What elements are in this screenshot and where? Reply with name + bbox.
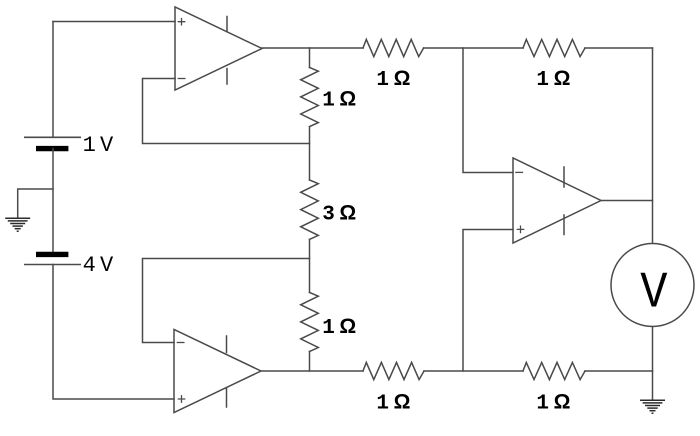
- wire: node at top of middle resistor chain: [309, 48, 311, 68]
- wire: U2 output to R6: [261, 370, 363, 372]
- wire: left rail lower segment to U2 + input: [53, 265, 174, 400]
- resistor R3 1 ohm (vertical bottom): [301, 293, 319, 352]
- ground (right): [640, 400, 665, 413]
- svg-text:1 V: 1 V: [83, 133, 114, 158]
- svg-text:1 Ω: 1 Ω: [536, 390, 569, 415]
- resistor R4 1 ohm (top row left): [363, 39, 424, 56]
- wire: left rail between V1 and V2: [52, 149, 54, 252]
- resistor R7 1 ohm (bottom row right): [523, 362, 585, 379]
- resistor R2 3 ohm (vertical middle): [301, 180, 319, 239]
- wire: U1 output to R4: [262, 47, 363, 49]
- wire: voltmeter bottom to bottom rail junction: [652, 327, 654, 372]
- wire: top-left horizontal from left rail to U1 + input: [53, 21, 175, 23]
- pin - of U3: [516, 171, 523, 173]
- wire: U1 feedback from - input down to node A: [143, 79, 310, 144]
- pin + of U3: [517, 226, 523, 232]
- wire: between R6 and R7 through junction D: [424, 370, 523, 372]
- op-amp U3 (right): [513, 158, 601, 243]
- voltage source V1 1 V battery: [24, 137, 81, 148]
- svg-text:1 Ω: 1 Ω: [322, 87, 355, 112]
- pin - of U2: [177, 342, 184, 344]
- power pin tick (top) of U1: [226, 17, 228, 32]
- resistor R6 1 ohm (bottom row left): [363, 362, 424, 379]
- wire: bottom of middle chain to bottom row: [309, 352, 311, 372]
- wire: R5 to right rail corner: [585, 47, 653, 49]
- svg-text:1 Ω: 1 Ω: [322, 315, 355, 340]
- wire: junction C down to U3 - input: [463, 48, 513, 173]
- power pin tick (top) of U3: [563, 167, 565, 187]
- ground (left): [5, 218, 30, 231]
- resistor R5 1 ohm (top row right): [523, 39, 585, 56]
- wire: left rail upper segment down to V1 top plate: [52, 22, 54, 138]
- pin + of U2: [178, 396, 184, 402]
- wire: node B junction segment between R2 and R3: [309, 239, 311, 292]
- wire: R7 to bottom right junction: [585, 370, 653, 372]
- wire: U3 output to right rail: [601, 200, 653, 202]
- wire: between R4 and R5 through junction C: [424, 47, 523, 49]
- wire: junction D up to U3 + input: [463, 230, 513, 372]
- power pin tick (bottom) of U1: [226, 69, 228, 85]
- pin - of U1: [178, 78, 185, 80]
- svg-text:1 Ω: 1 Ω: [376, 390, 409, 415]
- op-amp U2 (bottom): [174, 330, 261, 413]
- pin + of U1: [178, 19, 184, 25]
- voltage source V2 4 V battery: [24, 254, 81, 264]
- power pin tick (bottom) of U3: [563, 215, 565, 235]
- resistor R1 1 ohm (vertical top): [301, 68, 319, 127]
- voltmeter M1: [611, 244, 694, 327]
- wire: U2 feedback from node B up-left to - input: [143, 259, 310, 343]
- svg-text:3 Ω: 3 Ω: [322, 201, 355, 226]
- wire: ground branch from left rail: [18, 189, 53, 218]
- wire: node A junction segment between R1 and R2: [309, 127, 311, 180]
- svg-text:4 V: 4 V: [83, 253, 114, 278]
- power pin tick (bottom) of U2: [226, 388, 228, 407]
- op-amp U1 (top): [175, 7, 262, 90]
- svg-text:1 Ω: 1 Ω: [536, 67, 569, 92]
- power pin tick (top) of U2: [226, 336, 228, 353]
- wire: right rail down to voltmeter: [652, 48, 654, 244]
- svg-text:V: V: [640, 265, 667, 322]
- svg-text:1 Ω: 1 Ω: [376, 67, 409, 92]
- wire: bottom rail junction down to ground: [652, 371, 654, 400]
